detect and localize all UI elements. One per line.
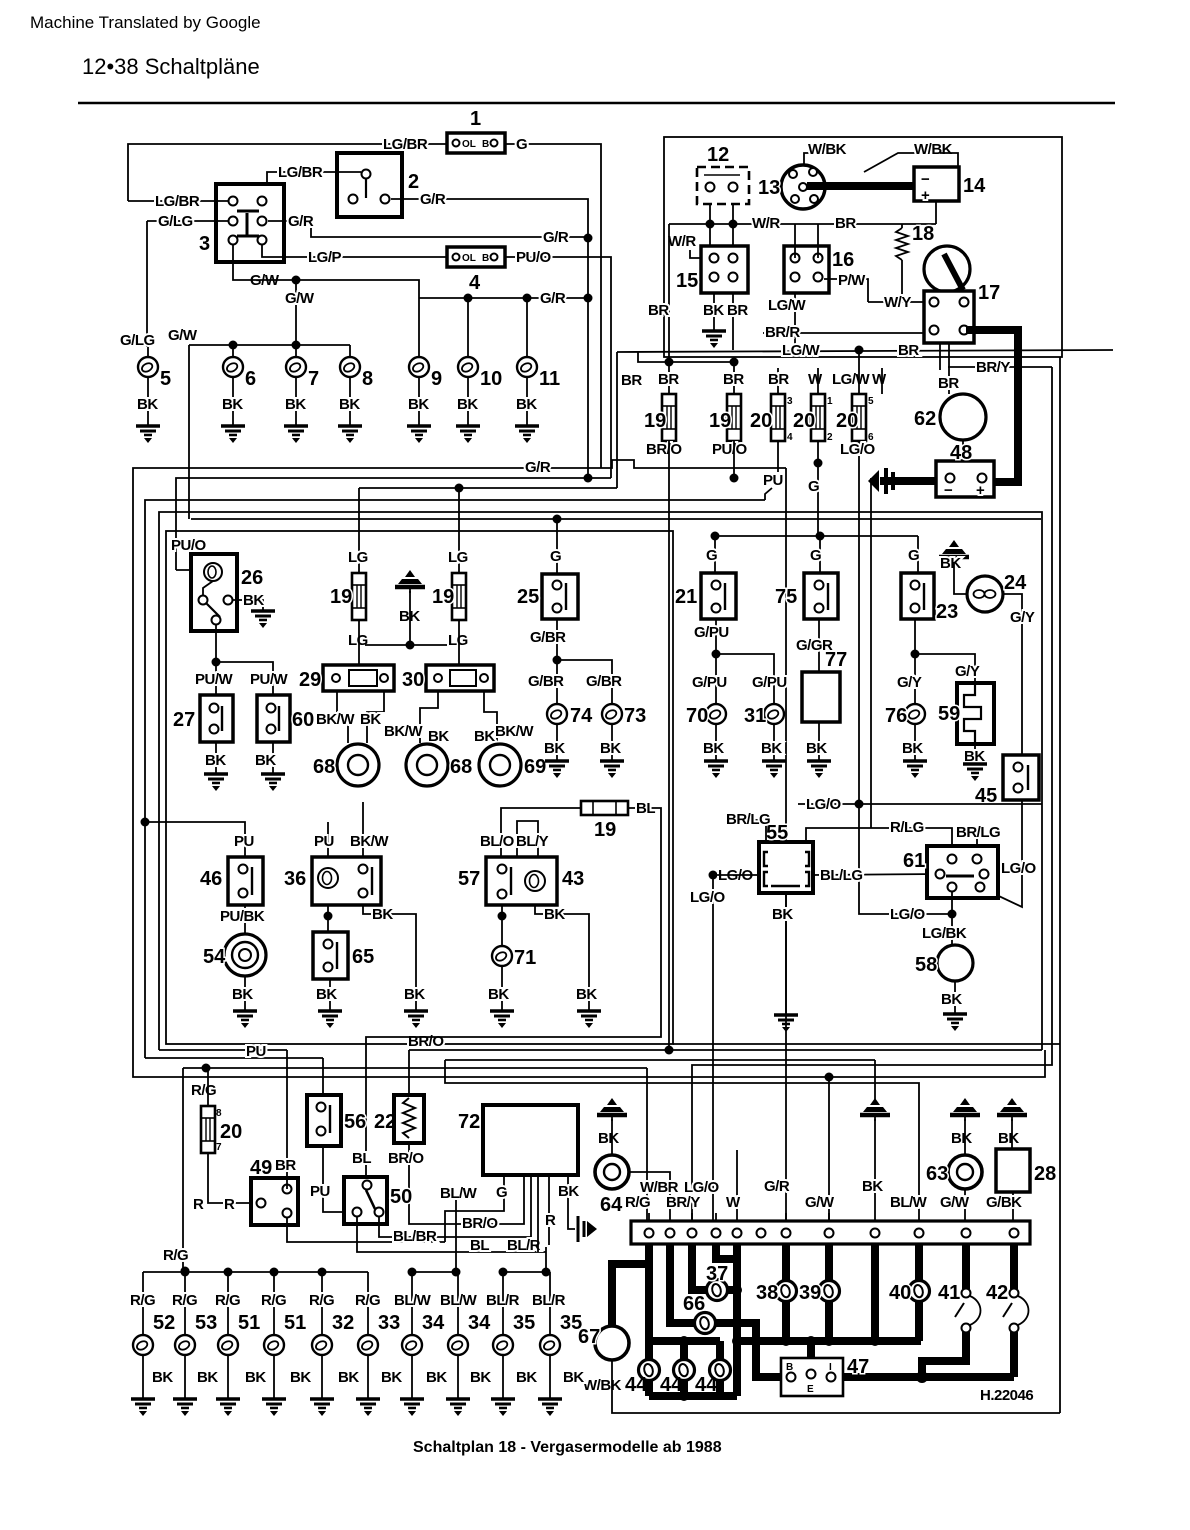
svg-text:BK: BK [544,906,565,923]
lamp 40 [909,1281,930,1302]
svg-text:G/BR: G/BR [528,673,564,690]
svg-text:30: 30 [402,669,424,691]
svg-text:W: W [808,371,823,388]
bus pin stubs [648,1213,650,1240]
svg-text:5: 5 [160,368,171,390]
svg-text:32: 32 [332,1312,354,1334]
svg-text:PU: PU [246,1043,266,1060]
svg-text:26: 26 [241,567,263,589]
svg-text:71: 71 [514,947,536,969]
wire W/BK from 67 [611,1360,613,1378]
svg-text:38: 38 [756,1282,778,1304]
svg-text:R/G: R/G [172,1292,197,1309]
ground 26 [251,611,275,628]
wire R from 72 [548,1175,550,1245]
wire W/Y to starter 17 [868,301,924,303]
svg-text:W/BK: W/BK [808,141,847,158]
left cluster box [166,531,673,1044]
fuse 19 d [452,573,466,620]
wire BR/R [763,332,934,334]
battery 48 [936,442,994,499]
svg-text:29: 29 [299,669,321,691]
lamp 74 [547,704,567,724]
svg-text:51: 51 [238,1312,260,1334]
svg-text:69: 69 [524,756,546,778]
svg-text:BK: BK [232,986,253,1003]
inline connector unit 1 [447,108,505,153]
svg-text:R/G: R/G [130,1292,155,1309]
thick wire pin2 W/BR to 66 [670,1244,694,1323]
wire BR to 49 [286,1050,288,1189]
lamp 70 [706,704,726,724]
wire 23 down to junction [914,619,916,654]
thick wire E column into 47 [807,1341,815,1371]
svg-text:56: 56 [344,1111,366,1133]
svg-text:+: + [976,482,985,499]
wire G/LG into unit 3 [147,220,228,222]
svg-text:PU/O: PU/O [516,249,552,266]
wire PU line D [145,500,765,1058]
battery earth terminal [880,477,936,485]
relay 65 [313,932,374,979]
wire R/LG from 55 to 61 [806,828,952,859]
svg-text:65: 65 [352,946,374,968]
ground 15 [702,331,726,348]
fuse feed BR vertical [668,224,670,394]
svg-text:BL: BL [636,800,655,817]
svg-text:G: G [496,1184,507,1201]
svg-text:BK: BK [516,396,537,413]
svg-text:BR: BR [723,371,744,388]
svg-text:R/G: R/G [625,1194,650,1211]
svg-text:12: 12 [707,144,729,166]
svg-text:5: 5 [868,396,874,407]
wire BK from 36 right [363,905,416,1010]
svg-text:G/BR: G/BR [586,673,622,690]
svg-text:BK: BK [703,740,724,757]
svg-text:62: 62 [914,408,936,430]
svg-text:BK: BK [222,396,243,413]
lamp 73 [602,704,622,724]
wire G to 21 [714,536,716,573]
svg-text:LG/O: LG/O [890,906,925,923]
svg-text:BK: BK [205,752,226,769]
svg-text:66: 66 [683,1293,705,1315]
svg-text:BK: BK [703,302,724,319]
svg-text:BL/R: BL/R [486,1292,520,1309]
svg-text:BK: BK [197,1369,218,1386]
wire BK from 43 [535,905,589,1010]
antenna BK over BK column [860,1098,890,1121]
wire G/W lamp bus [189,344,350,346]
wire BR bottom segment [159,1049,287,1051]
svg-text:BR/O: BR/O [388,1150,424,1167]
fuse output LG/O [858,441,860,804]
svg-text:LG: LG [448,632,468,649]
ground symbols for lamps 5-11 [136,426,160,443]
svg-text:7: 7 [308,368,319,390]
svg-text:LG: LG [448,549,468,566]
svg-text:57: 57 [458,868,480,890]
wire PU/O from unit 4 to right [506,257,611,478]
svg-text:19: 19 [594,819,616,841]
resistor 18 [896,223,934,302]
svg-text:BK: BK [576,986,597,1003]
svg-text:35: 35 [560,1312,582,1334]
wire G from 72 [445,1175,504,1242]
svg-text:3: 3 [787,396,793,407]
svg-text:LG/BK: LG/BK [922,925,967,942]
thick wire BK column [871,1244,879,1341]
svg-text:BK/W: BK/W [495,723,534,740]
thick wire pin G/W to lamp 39 [825,1244,833,1282]
svg-text:G: G [550,548,561,565]
lamp column wires [143,1272,550,1335]
svg-text:G/BR: G/BR [530,629,566,646]
lamp 64 [595,1155,629,1216]
wire G/BR to lamp 73 [557,660,612,704]
wire G/W fuse column down to bus [828,1077,830,1234]
svg-text:54: 54 [203,946,226,968]
svg-text:R/LG: R/LG [890,819,924,836]
thick wire 47 to 42 bus [838,1373,1014,1381]
bottom lamp bus R/G [143,1271,368,1273]
svg-text:R/G: R/G [215,1292,240,1309]
svg-text:BR/Y: BR/Y [976,359,1010,376]
svg-text:BK: BK [941,991,962,1008]
wire PU/W to 60 [216,662,273,695]
antenna BK for 24 [939,540,969,563]
wire G/R loop line A [133,460,1045,1077]
svg-text:BK/W: BK/W [316,711,355,728]
wire BK 65 [329,979,331,1010]
svg-text:77: 77 [825,649,847,671]
wire PU bottom line [145,1057,323,1059]
wire G bus [715,535,918,537]
junction dot unit2 G/R joins PU/O line [584,474,593,483]
wire BK 60 [272,742,274,773]
svg-text:−: − [944,482,953,499]
svg-text:BR: BR [727,302,748,319]
svg-text:BK: BK [544,740,565,757]
svg-text:43: 43 [562,868,584,890]
svg-text:52: 52 [153,1312,175,1334]
wire LG/W down to fuse [858,350,860,394]
wire G/PU to lamp 70 [715,654,717,704]
thick wire pin4 LG/O bend [716,1244,737,1259]
lamp 8 [340,357,360,377]
svg-text:PU/BK: PU/BK [220,908,265,925]
svg-text:68: 68 [313,756,335,778]
svg-text:36: 36 [284,868,306,890]
fuse 20 c [852,394,866,441]
wire G/R from unit 2 [391,199,588,478]
svg-text:BL/LG: BL/LG [820,867,863,884]
svg-text:G/R: G/R [764,1178,790,1195]
wire 45 down to 61 [984,800,1022,907]
motor 58 [915,945,973,981]
wire BK/W to 36 [362,802,364,857]
svg-text:6: 6 [245,368,256,390]
wire G from unit 1 to right edge [506,144,601,468]
svg-text:BR: BR [275,1157,296,1174]
svg-text:BR: BR [938,375,959,392]
svg-text:BL/R: BL/R [532,1292,566,1309]
wire G to 75 [819,536,821,573]
wire G/R lamp bus 9-11 [419,297,588,299]
svg-text:R/G: R/G [355,1292,380,1309]
thick wire 66 to 47 path [716,1323,781,1377]
lamp 5 [138,357,158,377]
svg-text:BR/LG: BR/LG [956,824,1000,841]
svg-text:BL/R: BL/R [507,1237,541,1254]
svg-text:BK: BK [457,396,478,413]
wire BK 54 [244,976,246,1010]
switch 45 [975,755,1039,807]
svg-text:16: 16 [832,249,854,271]
switch 25 [517,574,578,619]
svg-text:BK: BK [806,740,827,757]
svg-text:51: 51 [284,1312,306,1334]
indicator lamp 37 [707,1280,728,1301]
dip switch 29 [299,665,394,691]
lamp 6 [223,357,243,377]
thick wire pin1 R/G down [645,1244,653,1341]
wire G/Y from 24 down to 45 [1003,594,1022,755]
svg-text:BK: BK [245,1369,266,1386]
wire W/BK left [804,153,836,165]
wire BL/R down to lamps [545,1247,547,1272]
svg-text:BK: BK [940,555,961,572]
relay 15 [676,246,748,293]
svg-text:PU: PU [763,472,783,489]
svg-text:44: 44 [695,1374,718,1396]
svg-text:40: 40 [889,1282,911,1304]
svg-text:W/BK: W/BK [914,141,953,158]
svg-text:G/PU: G/PU [752,674,787,691]
wire 62 to battery top [962,440,964,461]
wire LG/O feed line [798,803,1042,805]
svg-text:LG: LG [348,632,368,649]
svg-text:R/G: R/G [163,1247,188,1264]
wire BL from fuse [366,808,661,1178]
fuse output PU [777,441,779,472]
lamp 63 [926,1155,982,1189]
horn 69 [479,744,546,786]
wire G/PU from 21 [715,619,717,654]
svg-text:48: 48 [950,442,972,464]
lamp feeds [147,347,149,357]
lamp 7 [286,357,306,377]
wire W/R bus [669,223,902,225]
wire G/BR from 25 [556,619,558,660]
wire 57 down to 71 [501,905,503,946]
svg-text:LG/P: LG/P [308,249,341,266]
svg-text:OL: OL [462,253,476,264]
wire bottom line to right border [673,1043,1060,1045]
wire PU/O line B [176,478,611,570]
svg-text:8: 8 [216,1108,222,1119]
svg-text:G/R: G/R [540,290,566,307]
thick wire 44 top bus [649,1337,720,1345]
svg-text:BK: BK [408,396,429,413]
svg-text:2: 2 [827,432,833,443]
wire from 49 bottom to G line [287,1218,445,1242]
svg-text:74: 74 [570,705,593,727]
svg-text:25: 25 [517,586,539,608]
bottom border of diagram [612,1378,1060,1413]
svg-text:E: E [807,1384,814,1395]
svg-text:PU: PU [310,1183,330,1200]
svg-text:R: R [545,1212,556,1229]
svg-text:BL/BR: BL/BR [393,1228,437,1245]
svg-text:G/R: G/R [543,229,569,246]
svg-text:76: 76 [885,705,907,727]
lamp 38 [776,1281,797,1302]
wire G/Y to lamp 76 [914,654,916,704]
svg-text:72: 72 [458,1111,480,1133]
wire BK from 72 to buzzer [568,1175,575,1229]
lamp 11 [517,357,537,377]
alternator 62 [914,394,986,440]
svg-text:BK: BK [360,711,381,728]
wire coil + down to W/R line [935,201,937,224]
svg-text:44: 44 [660,1374,683,1396]
svg-text:PU/O: PU/O [712,441,748,458]
wire G/W line F [191,518,1041,520]
wire LG/W from 16 [794,293,796,350]
wire line E top [159,512,1042,1050]
indicator lamp 66 [695,1313,716,1334]
wire BL joins 72 [537,1175,539,1252]
wire BR/O bottom segment [409,1049,1042,1051]
svg-text:H.22046: H.22046 [980,1387,1033,1404]
svg-text:19: 19 [432,586,454,608]
svg-text:4: 4 [787,432,793,443]
svg-text:BK/W: BK/W [384,723,423,740]
svg-text:BK: BK [600,740,621,757]
svg-text:61: 61 [903,850,925,872]
svg-text:21: 21 [675,586,697,608]
wire G/R from unit 3 [268,221,588,237]
thick HT lead 13 to 14 [807,182,914,190]
lamp 24 [967,572,1027,612]
svg-text:Schaltplan 18 - Vergasermodell: Schaltplan 18 - Vergasermodelle ab 1988 [413,1439,722,1456]
svg-text:20: 20 [750,410,772,432]
wire 15 BK to ground [713,293,715,330]
svg-text:BR: BR [898,342,919,359]
svg-text:G/W: G/W [285,290,315,307]
svg-text:19: 19 [644,410,666,432]
thick wire 42 down to 47 line [1010,1332,1018,1377]
svg-text:BL/W: BL/W [394,1292,432,1309]
svg-text:BK: BK [404,986,425,1003]
fuse 19 horizontal [581,801,628,841]
switch 50 [344,1177,412,1224]
flasher relay 36 [284,857,381,905]
svg-text:R/G: R/G [309,1292,334,1309]
wires 29 to horn 68a [337,691,348,743]
svg-text:17: 17 [978,282,1000,304]
svg-text:BK: BK [428,728,449,745]
svg-text:19: 19 [330,586,352,608]
ignition coil 14 [914,167,986,204]
svg-text:42: 42 [986,1282,1008,1304]
thick wire to switch 41 [962,1244,970,1289]
svg-text:50: 50 [390,1186,412,1208]
fuse feed bus [638,352,734,362]
main harness connector bus bar [631,1221,1030,1244]
svg-text:BR/Y: BR/Y [666,1194,700,1211]
wire R from fuse to 49 [208,1153,253,1203]
resistor unit 22 [394,1095,424,1143]
wire PU from 56 to 50 [323,1146,357,1212]
wire G/GR from 75 [818,619,820,672]
wire PU/W to 27 [215,662,217,695]
svg-text:−: − [921,171,930,188]
thick wire 41 to 47 line [922,1332,966,1377]
thick wire pin5 W down [733,1244,741,1396]
svg-text:I: I [829,1362,832,1373]
svg-text:LG/W: LG/W [832,371,870,388]
svg-text:64: 64 [600,1194,623,1216]
wire LG feed line C [358,488,360,573]
svg-text:BL/W: BL/W [890,1194,928,1211]
switch 42 [986,1282,1029,1333]
svg-text:34: 34 [468,1312,491,1334]
svg-text:BR/O: BR/O [646,441,682,458]
svg-text:R: R [224,1196,235,1213]
horn 68 a [313,744,379,786]
svg-text:BK: BK [255,752,276,769]
wire LG/O column to 55 [712,875,714,1234]
hazard switch 57 / 43 [458,857,584,905]
wire PU/O into 26 [176,569,203,571]
svg-text:LG/O: LG/O [806,796,841,813]
relay 27 [173,695,233,742]
svg-text:G/W: G/W [168,327,198,344]
fuse 19 b [727,394,741,441]
svg-text:27: 27 [173,709,195,731]
svg-text:BK: BK [761,740,782,757]
wire G/W bus [247,280,419,298]
wire G/W drop [295,280,297,345]
wire G/BR to lamp 74 [556,660,558,704]
svg-text:11: 11 [539,368,560,390]
svg-text:BL/W: BL/W [440,1292,478,1309]
svg-text:3: 3 [199,233,210,255]
wire BL/Y bracket [517,821,538,857]
svg-text:BK: BK [998,1130,1019,1147]
wire LG/BR into unit 3 [128,200,228,202]
relay 16 [784,246,854,293]
svg-text:68: 68 [450,756,472,778]
wire LG/BR top bus [128,144,446,201]
svg-text:BR: BR [648,302,669,319]
wire 64 to bus pin 2 [629,1172,670,1234]
svg-text:LG/BR: LG/BR [383,136,428,153]
svg-text:37: 37 [706,1263,728,1285]
relay 49 [250,1157,298,1225]
svg-text:BK: BK [152,1369,173,1386]
wire BR/Y loop right side [692,367,1052,1234]
svg-text:G: G [706,547,717,564]
svg-text:BL/O: BL/O [480,833,515,850]
svg-text:G/W: G/W [805,1194,835,1211]
wire BL/W from 72 [455,1196,457,1272]
svg-text:19: 19 [709,410,731,432]
svg-text:PU/W: PU/W [250,671,289,688]
